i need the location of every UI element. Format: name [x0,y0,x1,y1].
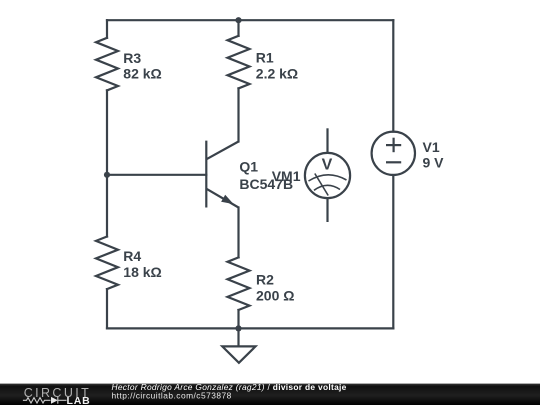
svg-text:18 kΩ: 18 kΩ [123,264,161,280]
resistor R4 label [123,248,161,280]
svg-text:LAB: LAB [67,395,91,405]
wire top rail [107,19,393,21]
wire collector lead (R1 to Q1) [237,88,239,141]
svg-text:http://circuitlab.com/c573878: http://circuitlab.com/c573878 [112,390,232,400]
svg-text:V: V [322,157,333,174]
svg-text:Q1: Q1 [239,159,258,175]
svg-text:R2: R2 [256,271,274,287]
wire right rail lower (V1 to bottom rail) [392,175,394,328]
CircuitLab logo resistor-diode glyph [23,397,67,404]
ground [222,346,255,362]
resistor R3 [96,38,118,91]
svg-text:82 kΩ: 82 kΩ [123,65,161,81]
voltage source V1 [372,132,415,175]
node base (left rail/base wire junction) [104,172,110,178]
voltmeter VM1 [305,153,350,198]
wire ground lead [237,328,239,345]
wire emitter lead (Q1 to R2) [237,208,239,258]
transistor Q1 [206,141,238,208]
node bottom (R2/ground/bottom rail junction) [235,325,241,331]
wire right rail upper (top rail to V1) [392,20,394,131]
svg-text:R1: R1 [256,50,274,66]
svg-text:2.2 kΩ: 2.2 kΩ [256,66,298,82]
resistor R2 label [256,271,294,303]
resistor R1 label [256,50,298,82]
svg-text:R4: R4 [123,248,141,264]
wire bottom rail [107,327,393,329]
wire left rail lower (R4 to bottom rail) [106,289,108,328]
resistor R2 [228,257,250,310]
wire base (left rail to Q1) [107,174,206,176]
resistor R1 [228,36,250,89]
svg-text:200 Ω: 200 Ω [256,287,294,303]
transistor Q1 label [239,159,293,193]
wire R2 bottom lead [237,310,239,328]
wire left rail upper (top rail to R3) [106,20,108,38]
footer bar [0,384,540,405]
svg-text:VM1: VM1 [272,168,301,184]
wire voltmeter top stub [326,129,328,153]
wire R1 top lead [237,20,239,36]
resistor R3 label [123,50,161,82]
resistor R4 [96,237,118,290]
wire left rail middle (R3 to R4) [106,90,108,236]
voltage source V1 label [423,139,445,171]
wire voltmeter bottom stub [326,198,328,221]
node top (R1/top rail junction) [235,17,241,23]
svg-text:V1: V1 [423,139,440,155]
svg-text:R3: R3 [123,50,141,66]
svg-text:9 V: 9 V [423,155,445,171]
